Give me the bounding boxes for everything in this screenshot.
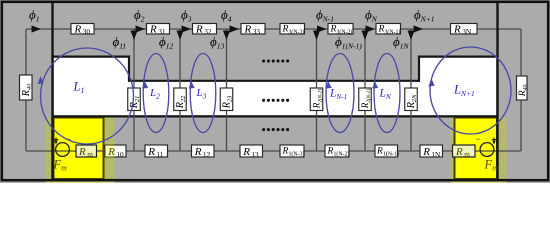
loop arrow LN-1 (326, 81, 332, 89)
resistor R12 (192, 145, 215, 159)
resistor R21 (128, 88, 141, 111)
pale strip below frame left (46, 179, 115, 183)
ellipsis dots row 3 (262, 128, 289, 131)
inductor loop LN+1 (430, 47, 511, 134)
outer frame (2, 2, 548, 180)
svg-text:R: R (282, 24, 289, 34)
loop arrow LN+1 (428, 79, 434, 87)
resistor R3N (451, 23, 478, 36)
inductor loop L2 (143, 54, 169, 133)
resistor R33 (241, 23, 265, 36)
MMF source Fm left (54, 134, 71, 157)
resistor R31 (147, 23, 170, 36)
highlight underlay right (olive tint over core) (451, 118, 507, 182)
resistor R3(N-2) (328, 24, 353, 36)
svg-text:R: R (194, 146, 202, 158)
wire column 5 (364, 29, 366, 151)
resistor R23 (220, 88, 233, 111)
svg-text:1N: 1N (431, 150, 441, 159)
down arrow phi13 (223, 31, 230, 41)
resistor Rm right (453, 145, 476, 159)
flux arrow phi2 (136, 25, 146, 32)
svg-text:R: R (195, 23, 203, 35)
svg-text:R: R (244, 23, 252, 35)
svg-text:R: R (453, 23, 461, 35)
svg-text:R: R (376, 147, 383, 157)
wire column 4 (316, 29, 318, 151)
resistor R2(N-2) (310, 88, 323, 111)
down arrow phi11 (131, 31, 138, 41)
svg-text:R: R (378, 24, 385, 34)
olive tint over R10 box edge (105, 145, 115, 158)
svg-text:R: R (74, 23, 82, 35)
loop arrow L1 (38, 76, 44, 84)
background core iron (0, 0, 550, 183)
svg-text:3(N-3): 3(N-3) (289, 28, 305, 35)
resistor R40 left (20, 75, 33, 100)
svg-text:3N: 3N (462, 27, 472, 36)
core window (white air region) (54, 57, 496, 116)
resistor R32 (193, 23, 217, 36)
svg-text:33: 33 (253, 27, 261, 36)
MMF source Fm right (476, 134, 497, 157)
flux arrow phi1 (32, 25, 42, 32)
svg-text:1(N-3): 1(N-3) (289, 151, 305, 158)
svg-text:R: R (149, 23, 157, 35)
svg-text:R: R (327, 147, 334, 157)
svg-text:1(N-1): 1(N-1) (383, 151, 399, 158)
loop arrow LN (372, 81, 378, 89)
resistor R40 right (517, 76, 529, 100)
core left leg edge (51, 2, 53, 181)
resistor R11 (145, 145, 168, 159)
svg-text:12: 12 (203, 150, 211, 159)
resistor R2N (405, 88, 418, 111)
yellow source region right (455, 118, 498, 180)
loop arrow L3 (189, 81, 195, 89)
svg-text:11: 11 (156, 150, 163, 159)
resistor R30 (71, 23, 94, 36)
wire bottom rail (26, 150, 521, 152)
resistor R13 (240, 145, 263, 159)
svg-text:R: R (422, 146, 430, 158)
resistor R22 (174, 88, 187, 111)
svg-text:R: R (330, 24, 337, 34)
down arrow phi1N (408, 31, 415, 41)
down arrow phi1N-1 (362, 31, 369, 41)
wire top rail (26, 28, 521, 30)
ellipsis dots row 1 (262, 59, 289, 62)
svg-text:1(N-2): 1(N-2) (334, 151, 350, 158)
flux arrow phiN+1 (414, 25, 424, 32)
svg-text:10: 10 (116, 150, 124, 159)
svg-text:R: R (455, 146, 463, 158)
yellow source region left (54, 118, 104, 180)
inductor loop L1 (41, 48, 134, 144)
pale strip below frame right (451, 179, 507, 183)
resistor R1(N-3) (280, 145, 304, 158)
svg-text:30: 30 (83, 27, 91, 36)
resistor R1(N-1) (375, 145, 399, 158)
resistor R3(N-1) (376, 24, 401, 36)
resistor R1(N-2) (325, 145, 349, 158)
svg-text:R: R (78, 146, 86, 158)
inductor loop LN (374, 54, 400, 133)
resistor R2(N-1) (359, 88, 372, 111)
flux arrow phi4 (230, 25, 240, 32)
svg-text:13: 13 (251, 150, 259, 159)
svg-text:R: R (242, 146, 250, 158)
down arrow phi12 (177, 31, 184, 41)
svg-text:m: m (87, 150, 93, 159)
core window top/bottom edges (52, 57, 497, 117)
flux arrow phiN (366, 25, 376, 32)
wire column 6 (410, 29, 412, 151)
wire column 2 (179, 29, 181, 151)
wire column 3 (226, 29, 228, 151)
svg-text:R: R (282, 147, 289, 157)
svg-text:−: − (476, 134, 481, 144)
down arrow col4 (313, 31, 320, 41)
inductor loop L3 (190, 54, 216, 133)
resistor R10 (105, 145, 126, 159)
wire column 1 (133, 29, 135, 151)
highlight underlay left (olive tint over core) (46, 118, 115, 182)
svg-text:R: R (147, 146, 155, 158)
ellipsis dots row 2 (262, 99, 289, 102)
loop arrow L2 (142, 81, 148, 89)
flux arrow phi3 (182, 25, 192, 32)
resistor Rm left (76, 145, 97, 159)
wire right vertical (520, 29, 522, 151)
svg-text:m: m (464, 150, 470, 159)
core right leg edge (496, 2, 498, 181)
inductor loop LN-1 (326, 54, 354, 133)
flux arrow phiN-1 (317, 25, 327, 32)
resistor R3(N-3) (280, 24, 305, 36)
resistor R1N (420, 145, 443, 159)
wire left vertical (25, 29, 27, 151)
